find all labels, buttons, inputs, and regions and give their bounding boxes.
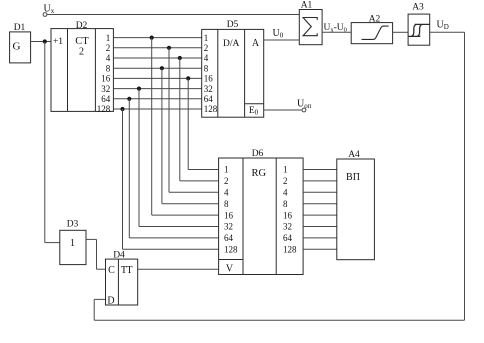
svg-text:+1: +1 [53,37,63,47]
wire tap row 4 down to D6 input 2 [180,58,219,181]
svg-text:A3: A3 [412,3,424,13]
wire U0 from D5.A to A1 lower input [264,39,300,41]
svg-text:A4: A4 [348,150,360,160]
block D2 counter CT2 [51,29,113,112]
svg-text:8: 8 [204,63,209,73]
svg-text:2: 2 [224,176,229,186]
svg-text:D6: D6 [252,149,264,159]
svg-text:D: D [107,296,114,307]
svg-text:E0: E0 [249,106,259,117]
svg-text:128: 128 [283,245,297,255]
svg-text:1: 1 [106,33,111,43]
wire D3 output to D4.C [86,239,106,269]
block A4 label [348,150,360,160]
wire bus row 4 from D2 to D5 [113,57,201,59]
wire bus row 128 from D2 to D5 [113,108,201,110]
svg-text:8: 8 [283,199,288,209]
svg-text:1: 1 [70,238,75,249]
D2 output pin labels 1-128 [97,33,111,114]
D5 input pin labels 1-128 [204,33,218,114]
svg-text:2: 2 [79,47,84,58]
wire D6 output 64 to A4 [303,237,337,239]
node Ux input terminal [43,4,55,17]
wire bus row 32 from D2 to D5 [113,88,201,90]
svg-text:G: G [13,40,21,52]
svg-text:4: 4 [204,53,209,63]
svg-text:8: 8 [224,199,229,209]
junction on bus row 4 [178,56,182,60]
svg-text:16: 16 [204,74,214,84]
wire tap row 32 down to D6 input 32 [139,89,219,227]
svg-text:2: 2 [106,43,111,53]
comparator A3 hysteresis symbol [408,14,430,45]
junction at D1 output branch [43,39,47,43]
wire D6 output 32 to A4 [303,226,337,228]
junction on bus row 64 [127,97,131,101]
block D6 register RG [219,158,304,275]
svg-text:64: 64 [204,94,214,104]
svg-text:RG: RG [252,168,267,179]
svg-text:64: 64 [101,94,111,104]
wire tap row 1 down to D6 input 16 [152,38,219,216]
svg-text:D5: D5 [227,20,239,30]
svg-text:4: 4 [283,188,288,198]
wire D4 output to D6.V [138,268,219,270]
svg-text:16: 16 [101,74,111,84]
block D6 label [252,149,264,159]
wire A2 to A3 [393,31,409,33]
svg-text:A: A [252,38,260,49]
svg-text:16: 16 [224,210,234,220]
op-amp summer A1 (sigma) [299,10,322,45]
svg-text:C: C [108,265,115,276]
svg-text:D/A: D/A [223,39,240,49]
svg-text:32: 32 [224,222,233,232]
wire bus row 1 from D2 to D5 [113,37,201,39]
svg-text:8: 8 [106,63,111,73]
block D4 label [113,250,125,260]
wire D6 output 16 to A4 [303,214,337,216]
node Uop terminal [297,99,312,112]
wire bus row 8 from D2 to D5 [113,67,201,69]
svg-text:CT: CT [75,36,89,47]
wire D6 output 4 to A4 [303,191,337,193]
limiter A2 saturation symbol [351,23,392,44]
svg-text:ВП: ВП [346,172,360,183]
block D3 label [67,220,79,230]
block D1 label [14,23,26,33]
D6 output pin labels 1-128 [283,165,297,255]
wire D6 output 2 to A4 [303,180,337,182]
svg-text:4: 4 [224,188,229,198]
junction on bus row 32 [137,87,141,91]
block A1 label [301,1,313,11]
svg-text:32: 32 [101,84,110,94]
svg-text:128: 128 [204,104,218,114]
wire D1 output to D2 [31,41,51,43]
svg-text:2: 2 [204,43,209,53]
block D3 logic 1 [60,230,86,264]
wire bottom feedback to D4.D [94,299,464,320]
wire bus row 64 from D2 to D5 [113,98,201,100]
block D1 generator G [10,32,31,63]
svg-text:16: 16 [283,210,293,220]
wire A1 output Ux-U0 to A2 [322,31,351,33]
svg-text:TT: TT [121,265,133,276]
svg-text:D3: D3 [67,220,79,230]
svg-text:1: 1 [224,165,229,175]
junction on bus row 128 [120,107,124,111]
node Ux-U0 label [324,23,347,34]
wire D6 output 1 to A4 [303,169,337,171]
block D4 flip-flop TT [106,259,138,306]
block D5 label [227,20,239,30]
svg-text:64: 64 [283,233,293,243]
svg-text:2: 2 [283,176,288,186]
block D5 D/A converter [202,29,264,117]
wire tap row 2 down to D6 input 4 [169,48,219,193]
svg-text:1: 1 [204,33,209,43]
svg-text:64: 64 [224,233,234,243]
wire branch down to D3 [45,42,60,243]
wire right feedback rail down [464,32,466,320]
wire A3 output UD to right rail [430,31,465,33]
svg-text:128: 128 [97,104,111,114]
svg-text:32: 32 [283,222,292,232]
svg-text:4: 4 [106,53,111,63]
svg-text:1: 1 [283,165,288,175]
block A2 label [369,15,381,25]
svg-text:32: 32 [204,84,213,94]
svg-text:D2: D2 [76,21,88,31]
D6 input pin labels 1-128 [224,165,238,255]
junction on bus row 2 [167,46,171,50]
wire D6 output 128 to A4 [303,248,337,250]
wire D6 output 8 to A4 [303,203,337,205]
svg-text:128: 128 [224,245,238,255]
junction on bus row 1 [150,36,154,40]
junction on bus row 8 [160,66,164,70]
block D2 label [76,21,88,31]
wire tap row 8 down to D6 input 8 [162,68,219,204]
block A4 VP [337,159,375,260]
wire tap row 64 down to D6 input 64 [129,99,218,238]
node U0 label [273,28,284,40]
wire tap row 16 down to D6 input 1 [188,78,218,169]
wire bus row 2 from D2 to D5 [113,47,201,49]
svg-text:Uх-U0: Uх-U0 [324,23,347,34]
node UD label [437,20,449,32]
block A3 label [412,3,424,13]
svg-text:V: V [226,264,234,275]
wire Ux to A1 top input [47,14,299,16]
wire bus row 16 from D2 to D5 [113,77,201,79]
junction on bus row 16 [186,76,190,80]
wire tap row 128 down to D6 input 128 [123,109,219,249]
wire E0 to Uop terminal [264,109,303,111]
